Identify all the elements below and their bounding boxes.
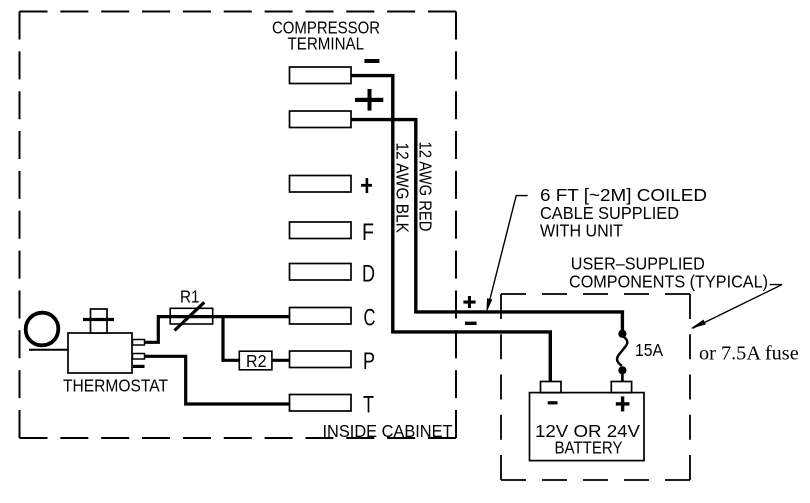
- svg-text:INSIDE CABINET: INSIDE CABINET: [323, 421, 453, 441]
- fuse element 15A: [617, 336, 627, 366]
- user-supplied dashed enclosure: [501, 294, 690, 480]
- svg-text:or 7.5A fuse: or 7.5A fuse: [699, 343, 799, 365]
- svg-text:15A: 15A: [635, 340, 663, 360]
- thermostat terminal tab upper: [133, 340, 145, 346]
- thermostat body: [68, 333, 132, 373]
- plus polarity mark at cable: [463, 296, 475, 308]
- leader from coiled-cable note to cable: [490, 196, 528, 301]
- fuse junction dot top: [618, 330, 626, 338]
- thermostat stem: [91, 309, 108, 333]
- wire thermostat lower tab to T lug: [145, 356, 290, 404]
- fuse junction dot bottom: [618, 366, 626, 374]
- battery minus mark: [548, 401, 558, 404]
- resistor R2: [239, 351, 272, 370]
- svg-text:R1: R1: [180, 286, 200, 306]
- terminal lug P: [290, 351, 352, 368]
- wire 12 AWG RED: plus lug to fuse: [351, 120, 622, 331]
- svg-text:T: T: [363, 392, 374, 419]
- terminal lug C: [290, 308, 352, 325]
- terminal lug MINUS: [290, 67, 352, 84]
- wire junction drop to R2: [223, 315, 239, 360]
- resistor R1: [170, 308, 213, 324]
- svg-text:TERMINAL: TERMINAL: [288, 34, 365, 54]
- thermostat terminal tab lower: [133, 354, 145, 360]
- svg-text:6 FT [~2M] COILED: 6 FT [~2M] COILED: [540, 185, 707, 205]
- minus polarity mark at cable: [465, 322, 477, 325]
- svg-text:12 AWG RED: 12 AWG RED: [415, 142, 435, 232]
- inside cabinet dashed enclosure: [20, 12, 457, 439]
- plus label: [361, 178, 372, 193]
- terminal lug +: [290, 176, 352, 193]
- battery plus mark: [616, 396, 630, 411]
- battery body: [530, 393, 645, 461]
- svg-text:C: C: [364, 305, 376, 332]
- svg-text:D: D: [362, 261, 375, 288]
- svg-text:COMPONENTS (TYPICAL): COMPONENTS (TYPICAL): [569, 272, 768, 292]
- svg-text:THERMOSTAT: THERMOSTAT: [63, 376, 168, 396]
- capillary tube: [29, 349, 68, 351]
- wire R2 to P lug: [272, 359, 290, 362]
- thermostat stub tab: [133, 365, 145, 368]
- svg-text:12 AWG BLK: 12 AWG BLK: [393, 143, 413, 234]
- wire thermostat upper tab to R1 to C lug: [145, 317, 290, 343]
- wire 12 AWG BLK: minus lug to battery minus post: [351, 76, 550, 382]
- battery minus post: [541, 382, 562, 393]
- svg-text:R2: R2: [246, 351, 267, 371]
- plus polarity mark: [355, 89, 383, 111]
- svg-text:BATTERY: BATTERY: [555, 437, 623, 457]
- terminal lug T: [290, 395, 352, 412]
- leader from note to user-supplied box: [693, 285, 783, 329]
- thermostat crossbar: [83, 318, 114, 321]
- leader arrowhead: [486, 298, 492, 313]
- thermostat sensing coil: [26, 313, 59, 346]
- svg-text:WITH UNIT: WITH UNIT: [540, 221, 623, 241]
- leader arrowhead: [690, 320, 706, 329]
- terminal lug D: [290, 264, 352, 281]
- battery plus post: [611, 382, 631, 393]
- svg-text:F: F: [362, 219, 374, 246]
- wire fuse to battery plus post: [621, 374, 624, 382]
- svg-text:P: P: [363, 348, 375, 375]
- terminal lug F: [290, 222, 352, 239]
- terminal lug PLUS: [290, 111, 352, 128]
- minus polarity mark: [364, 59, 379, 63]
- R1 slash: [175, 302, 205, 330]
